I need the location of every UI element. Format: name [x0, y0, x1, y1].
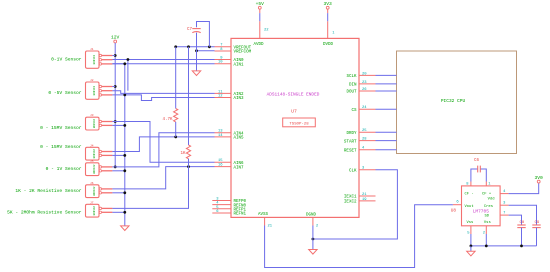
U7 pin 1 DVDD stub — [323, 21, 335, 47]
label R2 1K — [180, 152, 186, 156]
svg-text:26: 26 — [362, 88, 367, 92]
svg-text:7: 7 — [503, 211, 505, 215]
U7 pin 15 AIN6 stub — [215, 159, 245, 166]
capacitor C7 — [478, 166, 481, 173]
wire SCLK to PIC32 — [376, 74, 397, 76]
svg-text:SD: SD — [484, 215, 489, 219]
svg-text:24: 24 — [362, 106, 367, 110]
wire J3p2 to gnd bus — [112, 124, 124, 126]
junction gnd bus J4p2 — [123, 154, 126, 157]
label J5 — [46, 166, 82, 172]
wire VREFOUT row — [176, 46, 215, 48]
wire AVSS net — [265, 205, 453, 268]
svg-text:HDR1X2: HDR1X2 — [93, 164, 96, 174]
svg-text:J5: J5 — [90, 160, 94, 163]
ground U8 — [467, 251, 475, 256]
svg-text:C6: C6 — [474, 159, 480, 163]
U8 pin name Vout — [465, 205, 474, 209]
wire VREFCOM row — [197, 50, 215, 52]
U7 pin 10 AIN1 stub — [215, 61, 245, 68]
svg-text:DIN: DIN — [349, 84, 357, 88]
power 12V symbol — [111, 35, 120, 43]
junction gnd bus J2p3 — [123, 94, 126, 97]
capacitor C9 — [532, 225, 540, 228]
svg-text:16: 16 — [218, 164, 223, 168]
connector J3 0 - 15MV Sensor — [86, 114, 113, 130]
wire START to PIC32 — [376, 140, 397, 142]
svg-text:J6: J6 — [90, 182, 94, 185]
connector J5 0 - 1V Sensor — [86, 160, 113, 176]
svg-text:4.7K: 4.7K — [162, 118, 173, 122]
IC U7 refdes — [291, 108, 297, 114]
svg-text:CF +: CF + — [482, 192, 492, 196]
connector J7 5K - 2MOhm Resistive Sensor — [86, 201, 113, 217]
junction 12V J1p1 — [114, 54, 117, 57]
junction 12V J2p1 — [114, 85, 117, 88]
U7 pin 24 CS stub — [351, 106, 375, 113]
svg-text:U8: U8 — [451, 209, 457, 214]
svg-text:Cres: Cres — [484, 204, 493, 209]
wire C8 bottom — [521, 228, 523, 246]
IC U8 refdes — [451, 209, 457, 214]
svg-text:3V3: 3V3 — [324, 1, 333, 7]
U7 pin 22 AVDD stub — [253, 21, 269, 47]
junction riser top — [127, 58, 130, 61]
IC U7 footprint label — [289, 123, 309, 127]
wire C9 bottom — [536, 228, 538, 246]
U8 pin 2 stub — [483, 226, 487, 236]
wire C7 right — [480, 169, 486, 182]
wire AIN3 from J2 pin3 — [112, 95, 214, 101]
wire AIN2 from J2 pin2 — [112, 91, 214, 94]
wire DRDY to PIC32 — [376, 131, 397, 133]
U7 pin 9 AIN0 stub — [215, 56, 245, 63]
power +5V symbol — [256, 1, 265, 13]
svg-text:1: 1 — [332, 32, 335, 36]
U7 pin 3 REFP0 stub — [212, 198, 246, 205]
U8 pin 3 stub — [500, 201, 509, 205]
U8 pin 6 stub — [453, 201, 462, 205]
label R1 4.7K — [162, 118, 173, 122]
power 3V3 symbol — [324, 1, 333, 13]
IC U7 footprint box TSSOP-28 — [283, 118, 316, 127]
svg-text:10: 10 — [218, 61, 223, 65]
svg-text:20: 20 — [362, 72, 367, 76]
wire J6p2 to gnd bus — [112, 192, 124, 194]
svg-text:J7: J7 — [90, 201, 94, 204]
label J1 — [51, 56, 82, 62]
label J4 — [40, 144, 82, 150]
svg-text:22: 22 — [264, 29, 269, 33]
svg-text:IEXC1: IEXC1 — [344, 196, 357, 200]
wire U8 Vss rail — [471, 234, 537, 246]
svg-text:Vss: Vss — [467, 221, 474, 225]
svg-text:DVDD: DVDD — [323, 43, 334, 47]
svg-text:J1: J1 — [90, 48, 94, 51]
wire AIN4 from J5 pin1 — [112, 133, 214, 167]
svg-text:+5V: +5V — [256, 1, 265, 7]
junction VREFOUT loop — [208, 45, 211, 48]
wire U8 ground stem — [470, 246, 472, 251]
junction Vss rail pin2 — [485, 245, 488, 248]
svg-text:21: 21 — [268, 225, 273, 229]
power 3V0 symbol — [535, 175, 544, 183]
svg-text:HDR1X2: HDR1X2 — [93, 186, 96, 196]
label C7 — [474, 159, 480, 163]
svg-text:IEXC2: IEXC2 — [344, 201, 357, 205]
label J7 — [7, 210, 82, 216]
U7 pin 4 REFN0 stub — [212, 202, 246, 209]
PIC32 CPU label — [441, 98, 466, 104]
svg-text:DGND: DGND — [306, 214, 317, 218]
wire AIN1 — [112, 63, 214, 65]
ground sensor bus — [121, 226, 129, 231]
svg-text:23: 23 — [362, 81, 367, 85]
svg-text:6: 6 — [456, 201, 459, 205]
svg-text:AIN1: AIN1 — [234, 64, 245, 68]
junction AIN5/R1 — [174, 136, 177, 139]
svg-text:HDR1X2: HDR1X2 — [93, 206, 96, 216]
label C6 — [187, 28, 193, 32]
wire RESET to PIC32 — [376, 149, 397, 151]
svg-text:PIC32 CPU: PIC32 CPU — [441, 98, 466, 104]
wire CS to PIC32 — [376, 108, 397, 110]
label C8 — [520, 221, 525, 225]
connector J4 0 - 15MV Sensor — [86, 144, 113, 160]
U7 pin 14 AIN5 stub — [215, 134, 245, 141]
U7 pin 16 AIN7 stub — [215, 164, 245, 171]
junction gnd bus J5p2 — [123, 169, 126, 172]
svg-text:21: 21 — [362, 193, 367, 197]
wire J2 pin1 — [112, 86, 115, 88]
svg-text:Vss: Vss — [484, 221, 491, 225]
U7 pin 20 SCLK stub — [346, 72, 375, 79]
svg-text:0 - 1V Sensor: 0 - 1V Sensor — [46, 166, 82, 172]
ground C6 — [192, 71, 200, 76]
label J6 — [15, 188, 81, 194]
wire R2 bottom — [188, 159, 190, 167]
U8 pin name CF+ — [482, 192, 492, 196]
svg-text:AIN3: AIN3 — [234, 97, 245, 101]
svg-text:CLK: CLK — [349, 170, 357, 174]
wire R2 top — [188, 47, 190, 145]
wire C7 left — [471, 169, 478, 182]
svg-text:0 - 15MV Sensor: 0 - 15MV Sensor — [40, 144, 82, 150]
svg-text:28: 28 — [362, 138, 367, 142]
svg-text:5K - 2MOhm Resistive Sensor: 5K - 2MOhm Resistive Sensor — [7, 210, 82, 216]
svg-text:HDR1X3: HDR1X3 — [93, 55, 96, 65]
wire AIN0 — [112, 59, 214, 61]
U7 pin 25 DRDY stub — [346, 129, 375, 136]
capacitor C6 — [192, 29, 200, 33]
junction VREFOUT R1 — [174, 45, 177, 48]
junction AIN7/R2/J7 — [187, 165, 190, 168]
wire J1 pin1 — [112, 55, 115, 57]
svg-text:0-1V Sensor: 0-1V Sensor — [51, 56, 82, 62]
U8 pin name CF- — [465, 192, 474, 196]
label J3 — [40, 125, 82, 131]
wire 12V bus — [114, 43, 116, 167]
wire 3V3 to DVDD — [327, 13, 329, 21]
U8 pin name SD — [484, 215, 489, 219]
svg-text:HDR1X2: HDR1X2 — [93, 149, 96, 159]
svg-text:0 -5V Sensor: 0 -5V Sensor — [48, 90, 81, 96]
wire AIN6 from J3 pin1 — [112, 122, 214, 163]
svg-text:U7: U7 — [291, 108, 297, 114]
wire ground bus — [112, 64, 124, 226]
U7 pin 8 VREFCOM stub — [215, 48, 252, 55]
svg-text:19: 19 — [362, 198, 367, 202]
IC U7 label ADS1148-SINGLE ENDED — [267, 93, 320, 98]
svg-text:J3: J3 — [90, 114, 94, 117]
U7 pin 3 CLK stub — [349, 167, 376, 174]
svg-text:14: 14 — [218, 134, 223, 138]
wire J7 pin1 riser — [112, 167, 188, 209]
connector J6 1K - 2K Resistive Sensor — [86, 182, 113, 198]
svg-text:DRDY: DRDY — [346, 132, 357, 136]
ground DGND — [309, 250, 317, 255]
svg-text:12: 12 — [218, 94, 223, 98]
PIC32 CPU block — [397, 51, 517, 154]
U7 pin 5 REFP1 stub — [212, 206, 246, 213]
wire C6 bottom — [196, 33, 198, 71]
U8 pin name Vdd — [488, 197, 495, 202]
svg-text:LM7705: LM7705 — [473, 208, 490, 214]
svg-text:RESET: RESET — [344, 149, 357, 153]
U7 pin 23 DIN stub — [349, 81, 376, 88]
junction Vss rail C8 — [520, 245, 523, 248]
junction gnd bus J3p2 — [123, 124, 126, 127]
U7 pin 12 AIN3 stub — [215, 94, 245, 101]
connector J2 0 -5V Sensor — [86, 79, 113, 99]
junction gnd bus J7p2 — [123, 211, 126, 214]
svg-text:12V: 12V — [111, 35, 120, 41]
svg-text:5: 5 — [467, 231, 470, 235]
svg-text:AIN7: AIN7 — [234, 166, 245, 170]
capacitor C8 — [517, 225, 525, 228]
svg-text:C7: C7 — [187, 28, 193, 32]
wire C6 top loop — [197, 22, 210, 47]
svg-text:HDR1X2: HDR1X2 — [93, 118, 96, 128]
U8 pin 5 stub — [467, 226, 471, 236]
junction gnd bus J6p2 — [123, 191, 126, 194]
wire R1 top — [175, 47, 177, 109]
U7 pin 21 IEXC1 stub — [344, 193, 376, 200]
svg-text:3V0: 3V0 — [535, 175, 544, 181]
wire Vdd to 3V0 — [509, 183, 539, 193]
wire SD to C8 — [509, 215, 522, 225]
connector J1 0-1V Sensor — [86, 48, 113, 68]
svg-text:1K - 2K Resistive Sensor: 1K - 2K Resistive Sensor — [15, 188, 81, 194]
svg-text:1K: 1K — [180, 152, 186, 156]
wire Cres to C9 — [509, 205, 537, 225]
U7 pin 7 VREFOUT stub — [215, 44, 252, 51]
wire CLK net — [313, 170, 398, 239]
label J2 — [48, 90, 81, 96]
wire J5p2 to gnd bus — [112, 170, 124, 172]
wire DOUT to PIC32 — [376, 90, 397, 92]
U7 pin 19 IEXC2 stub — [344, 198, 376, 205]
svg-text:DOUT: DOUT — [346, 91, 357, 95]
svg-text:REFN1: REFN1 — [234, 213, 247, 217]
wire AIN5 from J4 pin1 — [112, 137, 214, 152]
U7 pin 21 AVSS stub — [258, 213, 273, 228]
junction AIN1 gnd bus — [123, 62, 126, 65]
junction VREFOUT R2 — [187, 45, 190, 48]
wire +5V to AVDD — [259, 13, 261, 21]
U7 pin 11 AIN2 stub — [215, 90, 245, 97]
junction CLK/DGND — [312, 238, 315, 241]
U7 pin 4 RESET stub — [344, 147, 376, 154]
junction 12V J5p1 — [114, 166, 117, 169]
svg-text:AVSS: AVSS — [258, 213, 269, 217]
svg-text:SCLK: SCLK — [346, 75, 357, 79]
svg-text:2: 2 — [316, 225, 319, 229]
svg-text:CF -: CF - — [465, 192, 474, 196]
junction VREFCOM C6 — [195, 49, 198, 52]
U8 pin 7 stub — [500, 211, 509, 215]
U8 pin name Vss 1 — [467, 221, 474, 225]
U7 pin 13 AIN4 stub — [215, 130, 245, 137]
U8 pin 1 stub — [486, 182, 491, 187]
wire R1 bottom — [175, 122, 177, 137]
U8 pin 4 stub — [500, 190, 509, 194]
resistor R1 4.7K — [174, 109, 178, 122]
svg-text:AVDD: AVDD — [253, 43, 264, 47]
svg-text:0 - 15MV Sensor: 0 - 15MV Sensor — [40, 125, 82, 131]
U7 pin 6 REFN1 stub — [212, 210, 246, 217]
U7 pin 2 DGND stub — [306, 214, 319, 229]
svg-text:AIN5: AIN5 — [234, 137, 245, 141]
svg-text:Vout: Vout — [465, 205, 474, 209]
wire J7p2 to gnd bus — [112, 211, 124, 213]
svg-text:J4: J4 — [90, 144, 94, 147]
U8 pin 8 stub — [466, 182, 471, 187]
U8 pin name Cres — [484, 204, 493, 209]
svg-text:C9: C9 — [535, 221, 540, 225]
IC U8 part label — [473, 208, 490, 214]
svg-text:C8: C8 — [520, 221, 525, 225]
resistor R2 1K — [186, 145, 190, 159]
U8 pin name Vss 2 — [484, 221, 491, 225]
label C9 — [535, 221, 540, 225]
wire J1p2 to J2p2 riser — [127, 60, 129, 91]
svg-text:VREFCOM: VREFCOM — [234, 51, 252, 55]
svg-text:TSSOP-28: TSSOP-28 — [289, 123, 309, 127]
wire AIN7 from J6 pin1 — [112, 167, 214, 189]
U7 pin 28 START stub — [344, 138, 376, 145]
svg-text:25: 25 — [362, 129, 367, 133]
svg-text:J2: J2 — [90, 79, 94, 82]
junction 12V J3p1 — [114, 120, 117, 123]
IC U7 ADS1148 body — [231, 38, 359, 217]
svg-text:START: START — [344, 140, 357, 144]
wire J4p2 to gnd bus — [112, 154, 124, 156]
svg-text:HDR1X3: HDR1X3 — [93, 86, 96, 96]
svg-text:CS: CS — [351, 109, 357, 113]
svg-text:2: 2 — [483, 231, 486, 235]
junction Vss rail pin5 — [470, 245, 473, 248]
wire DGND down — [312, 226, 314, 250]
svg-text:Vdd: Vdd — [488, 197, 495, 202]
U7 pin 26 DOUT stub — [346, 88, 375, 95]
IC U8 LM7705 body — [462, 186, 501, 226]
svg-text:ADS1148-SINGLE ENDED: ADS1148-SINGLE ENDED — [267, 93, 320, 98]
wire DIN to PIC32 — [376, 83, 397, 85]
